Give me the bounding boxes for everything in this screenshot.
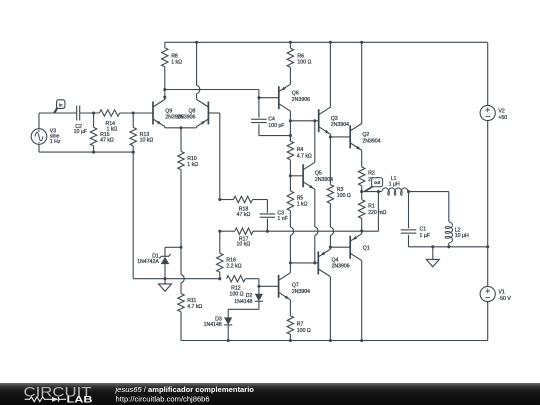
svg-text:+50: +50 [498, 115, 507, 121]
svg-text:C1: C1 [420, 226, 427, 232]
svg-text:100 Ω: 100 Ω [230, 292, 244, 298]
wire feedback rail mid [0, 0, 1, 1]
voltage source V2 (+50) [480, 105, 507, 120]
transistor Q9 (PNP 2N3906) [153, 100, 184, 127]
svg-text:jesus65 / amplificador complem: jesus65 / amplificador complementario [115, 385, 255, 394]
node junction Q3 collector top [329, 41, 332, 44]
resistor R13 (10 k) [130, 113, 153, 152]
node junction Q6 collector [289, 119, 292, 122]
node junction ground stem [431, 245, 434, 248]
wire Q3 base stub [315, 120, 319, 122]
wire Q9 base [133, 112, 153, 114]
resistor R18 (47 k) [220, 196, 268, 218]
svg-text:R7: R7 [297, 321, 304, 327]
node junction Q4 base / Q5 emitter [313, 261, 316, 264]
transistor Q7 (NPN 2N3904) [279, 273, 311, 300]
wire input top 1 [39, 112, 77, 114]
resistor R1 (220 mohm) [359, 192, 387, 231]
wire mirror rail [165, 90, 259, 98]
resistor R10 (1 k) [178, 128, 198, 248]
diode D2 (1N4148) [228, 286, 263, 317]
node junction Q4 collector bottom [329, 339, 332, 342]
capacitor C2 (10 uF) [74, 106, 87, 136]
node junction out column [377, 190, 380, 193]
node junction Q3 emitter [329, 135, 332, 138]
node junction R13 top [132, 111, 135, 114]
node junction C3 bottom [266, 230, 269, 233]
svg-text:Q8: Q8 [188, 108, 195, 114]
svg-text:Q3: Q3 [331, 116, 338, 122]
svg-text:1 kΩ: 1 kΩ [171, 59, 182, 65]
wire input bottom [39, 151, 133, 153]
wire Q3 collector stub [329, 42, 331, 107]
wire Q8 column node A [218, 198, 221, 201]
node junction right rail mid [486, 245, 489, 248]
wire Q2 collector stub [361, 42, 363, 123]
svg-text:220 mΩ: 220 mΩ [368, 210, 386, 216]
svg-text:R3: R3 [337, 187, 344, 193]
wire right rail upper [487, 42, 489, 105]
wire hop R5 column over feedback rail [290, 227, 293, 263]
svg-text:2N3906: 2N3906 [292, 97, 310, 103]
wire Q9 collector stub [164, 97, 166, 99]
wire output bottom [409, 246, 488, 248]
svg-text:1 kΩ: 1 kΩ [297, 202, 308, 208]
svg-text:R1: R1 [368, 204, 375, 210]
transistor Q8 (PNP 2N3906) [177, 100, 208, 127]
wire input top 3 [120, 112, 153, 114]
svg-text:1 µF: 1 µF [420, 233, 430, 239]
svg-text:V2: V2 [498, 108, 504, 114]
resistor R8 (1 k) [162, 42, 183, 99]
wire top rail [165, 41, 488, 43]
wire D1 branch [165, 247, 181, 256]
wire lower left rail [133, 152, 220, 279]
node junction diff emitter [179, 126, 182, 129]
wire out column corner [377, 230, 379, 232]
transistor Q5 (NPN 2N3904) [303, 162, 333, 189]
resistor R4 (4.7 k) [287, 136, 312, 176]
node junction out R2/R1 [360, 190, 363, 193]
svg-text:http://circuitlab.com/chj86b6: http://circuitlab.com/chj86b6 [116, 395, 210, 404]
wire feedback rail left [220, 230, 235, 232]
ground symbol output [426, 247, 439, 267]
node junction R13 bottom [132, 151, 135, 154]
node junction R1 bottom / Q1 emitter [360, 229, 363, 232]
wire hop Q8 collector over mirror rail [197, 42, 200, 99]
node junction Q7 collector / R5 [289, 261, 292, 264]
node junction R8 bottom [163, 88, 166, 91]
svg-text:Q6: Q6 [292, 91, 299, 97]
svg-text:47 kΩ: 47 kΩ [237, 212, 251, 218]
svg-text:10 kΩ: 10 kΩ [140, 138, 154, 144]
svg-text:1 Hz: 1 Hz [50, 139, 61, 145]
svg-text:10 kΩ: 10 kΩ [237, 242, 251, 248]
wire Q3 emitter to Q2 base [330, 136, 350, 138]
node in flag [54, 100, 65, 113]
svg-text:1N4742A: 1N4742A [137, 259, 159, 265]
wire Q1 emitter stub [361, 231, 363, 234]
wire Q3 emitter stub [329, 134, 331, 137]
svg-text:Q5: Q5 [315, 171, 322, 177]
node junction Q2 collector top [360, 41, 363, 44]
transistor Q4 (PNP 2N3906) [318, 249, 349, 276]
svg-text:100 Ω: 100 Ω [297, 328, 311, 334]
transistor Q6 (PNP 2N3906) [279, 84, 310, 111]
wire Q4 base stub [315, 262, 319, 264]
node junction R15 bottom [92, 151, 95, 154]
svg-text:R2: R2 [368, 171, 375, 177]
wire Q5 base [290, 175, 303, 177]
svg-text:Q9: Q9 [165, 108, 172, 114]
svg-text:4.7 kΩ: 4.7 kΩ [297, 153, 312, 159]
wire right rail lower [487, 302, 489, 341]
resistor R14 (1 k) [99, 110, 119, 133]
wire Q1 base [330, 246, 350, 248]
svg-text:out: out [374, 180, 381, 185]
wire Q7 collector to Q4 base [290, 262, 315, 264]
svg-text:1N4148: 1N4148 [234, 299, 252, 305]
svg-text:R5: R5 [297, 195, 304, 201]
wire V3 top lead [38, 113, 40, 129]
node junction R15 top [92, 111, 95, 114]
svg-text:R4: R4 [297, 147, 304, 153]
node junction C4 bottom [289, 134, 292, 137]
node junction R6 top [289, 41, 292, 44]
svg-text:2.2 kΩ: 2.2 kΩ [226, 264, 241, 270]
node junction Q8 collector top [195, 41, 198, 44]
node junction Q1 base [329, 246, 332, 249]
resistor R12 (100 ohm) [227, 276, 259, 298]
wire Q5 emitter column [315, 189, 318, 263]
wire hop R11 column [181, 247, 184, 293]
wire V3 bottom lead [38, 144, 40, 152]
voltage source V1 (-50 V) [480, 286, 511, 302]
resistor R17 (10 k) [235, 228, 253, 248]
transistor Q3 (NPN 2N3904) [319, 107, 349, 134]
svg-text:Q2: Q2 [362, 132, 369, 138]
svg-text:-50 V: -50 V [498, 296, 511, 302]
node junction D3 bottom [227, 339, 230, 342]
wire Q6 collector stub [289, 111, 291, 141]
svg-text:47 kΩ: 47 kΩ [100, 138, 114, 144]
svg-text:1N4148: 1N4148 [204, 322, 222, 328]
svg-text:1 kΩ: 1 kΩ [187, 162, 198, 168]
resistor R16 (2.2 k) [217, 231, 242, 279]
svg-text:1 µH: 1 µH [389, 182, 400, 188]
wire L1 to L2 top [409, 192, 449, 222]
resistor R5 (1 k) [287, 176, 307, 227]
wire feedback rail hops [253, 230, 378, 232]
node junction Q6 base / C4 top [257, 96, 260, 99]
transistor Q2 (NPN 2N3904) [350, 123, 380, 150]
wire Q1 collector stub [361, 261, 363, 341]
node junction R7 bottom [289, 339, 292, 342]
wire hop R3 column over feedback rail [330, 227, 333, 247]
wire input top 2 [80, 112, 100, 114]
node junction R16 bottom [218, 277, 221, 280]
node junction R4 bottom / Q5 base [289, 174, 292, 177]
node junction R17 left [218, 230, 221, 233]
wire Q2 emitter stub [361, 150, 363, 167]
svg-text:R11: R11 [187, 298, 196, 304]
ground symbol under D1 [159, 279, 172, 292]
svg-text:2N3906: 2N3906 [332, 264, 350, 270]
svg-text:10 µH: 10 µH [455, 233, 469, 239]
svg-text:in: in [59, 103, 63, 108]
svg-text:Q7: Q7 [292, 283, 299, 289]
wire Q4 emitter stub [329, 247, 331, 249]
capacitor C1 (1 uF) [401, 192, 430, 247]
wire right rail middle [487, 121, 489, 286]
node junction L2 bottom [447, 245, 450, 248]
wire Q7 collector stub [289, 263, 291, 273]
resistor R3 (100 ohm) [327, 137, 351, 227]
node junction Q7 base / D2 [257, 285, 260, 288]
inductor L2 (10 uH) [445, 222, 469, 247]
svg-text:V1: V1 [498, 290, 504, 296]
svg-text:R12: R12 [231, 285, 241, 291]
node junction Q5 collector branch [313, 119, 316, 122]
svg-text:C4: C4 [268, 117, 275, 123]
resistor R6 (100 ohm) [287, 42, 311, 84]
svg-text:100 Ω: 100 Ω [297, 59, 311, 65]
svg-text:10 µF: 10 µF [74, 129, 87, 135]
svg-text:2N3906: 2N3906 [177, 115, 195, 121]
svg-text:Q1: Q1 [363, 246, 370, 252]
svg-text:2N3904: 2N3904 [331, 122, 349, 128]
wire Q8 base [208, 113, 219, 200]
svg-text:2N3904: 2N3904 [362, 138, 380, 144]
wire Q6 collector to Q3 base [290, 120, 315, 122]
svg-text:1 nF: 1 nF [277, 216, 287, 222]
svg-text:LAB: LAB [67, 394, 93, 405]
wire Q6 base [259, 97, 279, 99]
wire bottom rail [181, 340, 488, 342]
capacitor C3 (1 nF) [260, 211, 288, 232]
node junction D1 anode / ground [163, 277, 166, 280]
resistor R11 (4.7 k) [178, 294, 203, 341]
node junction R10 bottom tee [179, 246, 182, 249]
svg-text:100 Ω: 100 Ω [337, 193, 351, 199]
capacitor C4 (100 pF) [251, 98, 290, 136]
diode D3 (1N4148) [204, 317, 233, 341]
svg-text:100 pF: 100 pF [268, 123, 284, 129]
wire out to L1 [362, 191, 382, 193]
resistor R7 (100 ohm) [287, 300, 311, 341]
resistor R15 (47 k) [90, 113, 114, 152]
wire Q5 collector column [314, 121, 316, 163]
node out flag [364, 178, 382, 192]
wire out column down [377, 192, 379, 231]
wire Q4 collector stub [329, 276, 331, 340]
node junction Q1 collector bottom [360, 339, 363, 342]
svg-text:2N3904: 2N3904 [292, 289, 310, 295]
diode D1 (zener 1N4742A) [137, 254, 171, 279]
wire diff emitters [165, 127, 197, 128]
node junction L1 right [407, 190, 410, 193]
node junction Q9 collector [163, 96, 166, 99]
svg-text:4.7 kΩ: 4.7 kΩ [187, 304, 202, 310]
voltage source V3 (sine 1 Hz) [31, 128, 61, 145]
inductor L1 (1 uH) [382, 176, 409, 196]
transistor Q1 (PNP) [350, 234, 370, 261]
wire Q7 base [259, 285, 279, 287]
resistor R2 (22 ohm) [359, 167, 380, 192]
